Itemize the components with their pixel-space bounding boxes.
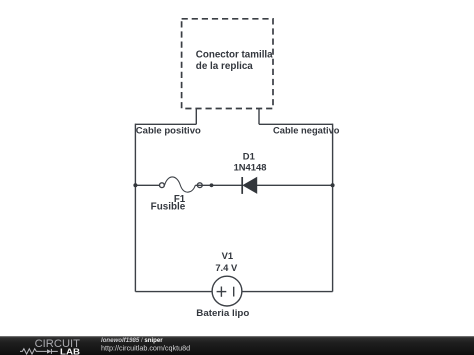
svg-text:D1: D1: [243, 151, 255, 162]
fuse F1: [160, 177, 243, 192]
wire: right vertical: [332, 124, 334, 292]
junction dot right: [331, 183, 335, 187]
diode D1: [242, 177, 257, 194]
svg-text:LAB: LAB: [60, 347, 80, 355]
wire: left vertical: [134, 124, 136, 292]
connector box (dashed): [182, 19, 273, 109]
wire: box bottom-left stub: [195, 109, 197, 125]
wire: fuse-row left segment: [135, 184, 159, 186]
svg-text:http://circuitlab.com/cqktu8d: http://circuitlab.com/cqktu8d: [101, 344, 190, 353]
svg-text:V1: V1: [222, 250, 233, 261]
junction dot mid (fuse-diode): [210, 183, 214, 187]
wire: battery-row right: [242, 291, 332, 293]
svg-text:1N4148: 1N4148: [234, 162, 267, 173]
wire: box bottom-right stub: [258, 109, 260, 125]
fuse right terminal circle: [197, 183, 202, 188]
wire: battery-row left: [135, 291, 212, 293]
svg-text:Conector tamilla: Conector tamilla: [196, 49, 273, 60]
svg-text:7.4 V: 7.4 V: [215, 262, 238, 273]
svg-text:Cable positivo: Cable positivo: [136, 125, 201, 136]
wire: diode to right vertical: [257, 184, 333, 186]
fuse wave element: [165, 177, 196, 192]
battery V1: [212, 276, 242, 306]
svg-text:Bateria lipo: Bateria lipo: [196, 308, 249, 319]
wire: top-left horizontal: [135, 123, 196, 125]
wire: fuse to diode: [195, 184, 242, 186]
svg-text:Fusible: Fusible: [151, 202, 186, 213]
CircuitLab logo: diode triangle: [47, 349, 51, 353]
CircuitLab logo: resistor-diode line: [20, 349, 58, 354]
svg-text:Cable negativo: Cable negativo: [273, 126, 340, 137]
junction dot left: [133, 183, 137, 187]
svg-text:de la replica: de la replica: [196, 61, 253, 72]
fuse left terminal circle: [160, 183, 165, 188]
wire: top-right horizontal: [259, 123, 333, 125]
label: Conector tamilla de la replica: [196, 49, 273, 72]
